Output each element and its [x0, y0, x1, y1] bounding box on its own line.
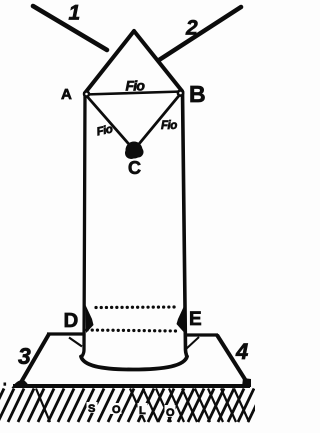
right anchor: [242, 378, 251, 387]
left footing slope: [20, 334, 49, 384]
wire A-B: [85, 92, 182, 95]
clamp E: [177, 306, 185, 333]
pole left edge: [82, 94, 86, 357]
crossarm right edge: [134, 31, 182, 91]
left footing gusset: [69, 338, 82, 347]
svg-text:L: L: [139, 405, 146, 417]
right footing slope: [217, 335, 248, 384]
svg-text:Fio: Fio: [126, 78, 146, 94]
label SOLO: [87, 402, 176, 419]
clamp D: [86, 305, 94, 333]
svg-text:1: 1: [69, 2, 81, 25]
dotted line upper: [96, 305, 176, 309]
ink speck: [4, 383, 7, 386]
svg-text:O: O: [112, 404, 121, 416]
pole bottom arc: [81, 357, 187, 370]
left anchor: [12, 380, 31, 388]
dotted line lower: [87, 330, 178, 331]
crossarm left edge: [85, 31, 134, 93]
svg-text:A: A: [61, 86, 72, 103]
wire B-C: [134, 92, 182, 150]
node A ring: [84, 92, 89, 97]
node C: [125, 142, 144, 160]
right footing gusset: [186, 337, 199, 349]
pole right edge: [183, 91, 188, 357]
wire 2: [159, 7, 241, 60]
svg-text:C: C: [128, 158, 141, 178]
node B ring: [178, 90, 183, 95]
svg-text:S: S: [88, 403, 95, 415]
wire A-C: [85, 94, 134, 150]
ground crosshatch: [36, 389, 249, 423]
svg-text:4: 4: [235, 339, 248, 364]
svg-text:Fio: Fio: [161, 120, 177, 132]
svg-text:E: E: [189, 309, 202, 330]
ground line: [13, 384, 250, 388]
right footing top edge: [186, 333, 218, 336]
svg-text:B: B: [189, 81, 206, 107]
left footing top edge: [47, 332, 83, 335]
svg-text:2: 2: [185, 17, 198, 40]
wire 1: [33, 6, 107, 50]
svg-text:D: D: [64, 309, 79, 332]
svg-text:3: 3: [18, 343, 31, 369]
svg-text:O: O: [166, 407, 175, 419]
ground hatch: [0, 389, 264, 423]
